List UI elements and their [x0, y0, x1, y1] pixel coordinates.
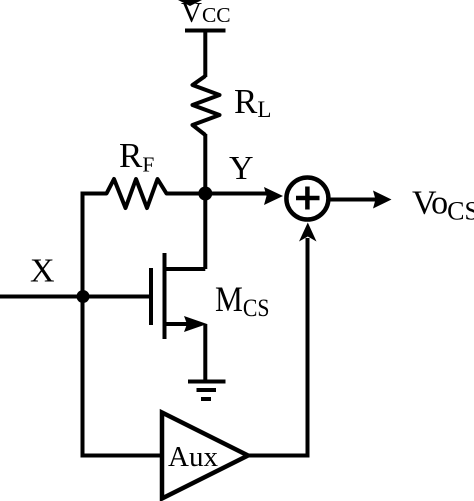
node Y junction dot	[198, 187, 212, 201]
arrowhead into summing junction	[264, 187, 283, 205]
wire left vertical from RF down to Aux input	[81, 192, 85, 458]
transistor MCS drain lead	[165, 267, 206, 271]
wire source to ground	[203, 324, 207, 382]
arrowhead up into summing junction	[299, 223, 317, 242]
amplifier Aux triangle	[162, 413, 248, 499]
resistor RL	[193, 76, 220, 135]
svg-text:VCC: VCC	[181, 0, 231, 29]
transistor MCS gate bar	[149, 268, 153, 325]
output arrowhead	[373, 191, 392, 209]
ground symbol	[188, 380, 226, 384]
clipped arrowhead above Vcc label	[178, 0, 202, 6]
svg-text:Aux: Aux	[168, 441, 218, 473]
summing junction circle	[286, 178, 328, 220]
source arrowhead	[184, 316, 207, 332]
wire summing junction to output	[329, 198, 376, 202]
wire drain to node Y	[203, 194, 207, 270]
svg-text:X: X	[30, 253, 55, 290]
resistor RF	[83, 179, 206, 208]
node X junction dot	[77, 290, 90, 303]
wire node Y to summing junction	[205, 192, 269, 196]
wire Aux output to summing junction	[248, 238, 308, 456]
wire left vertical to Aux input	[81, 454, 163, 458]
wire Vcc bar to RL	[203, 31, 207, 78]
transistor MCS channel bar	[163, 253, 167, 339]
svg-text:Y: Y	[229, 150, 254, 187]
transistor MCS source lead	[165, 322, 191, 326]
plus sign in summing junction	[296, 196, 320, 201]
Vcc supply bar	[185, 29, 226, 33]
wire RL to node Y	[203, 134, 207, 196]
wire input X to gate	[0, 295, 149, 299]
